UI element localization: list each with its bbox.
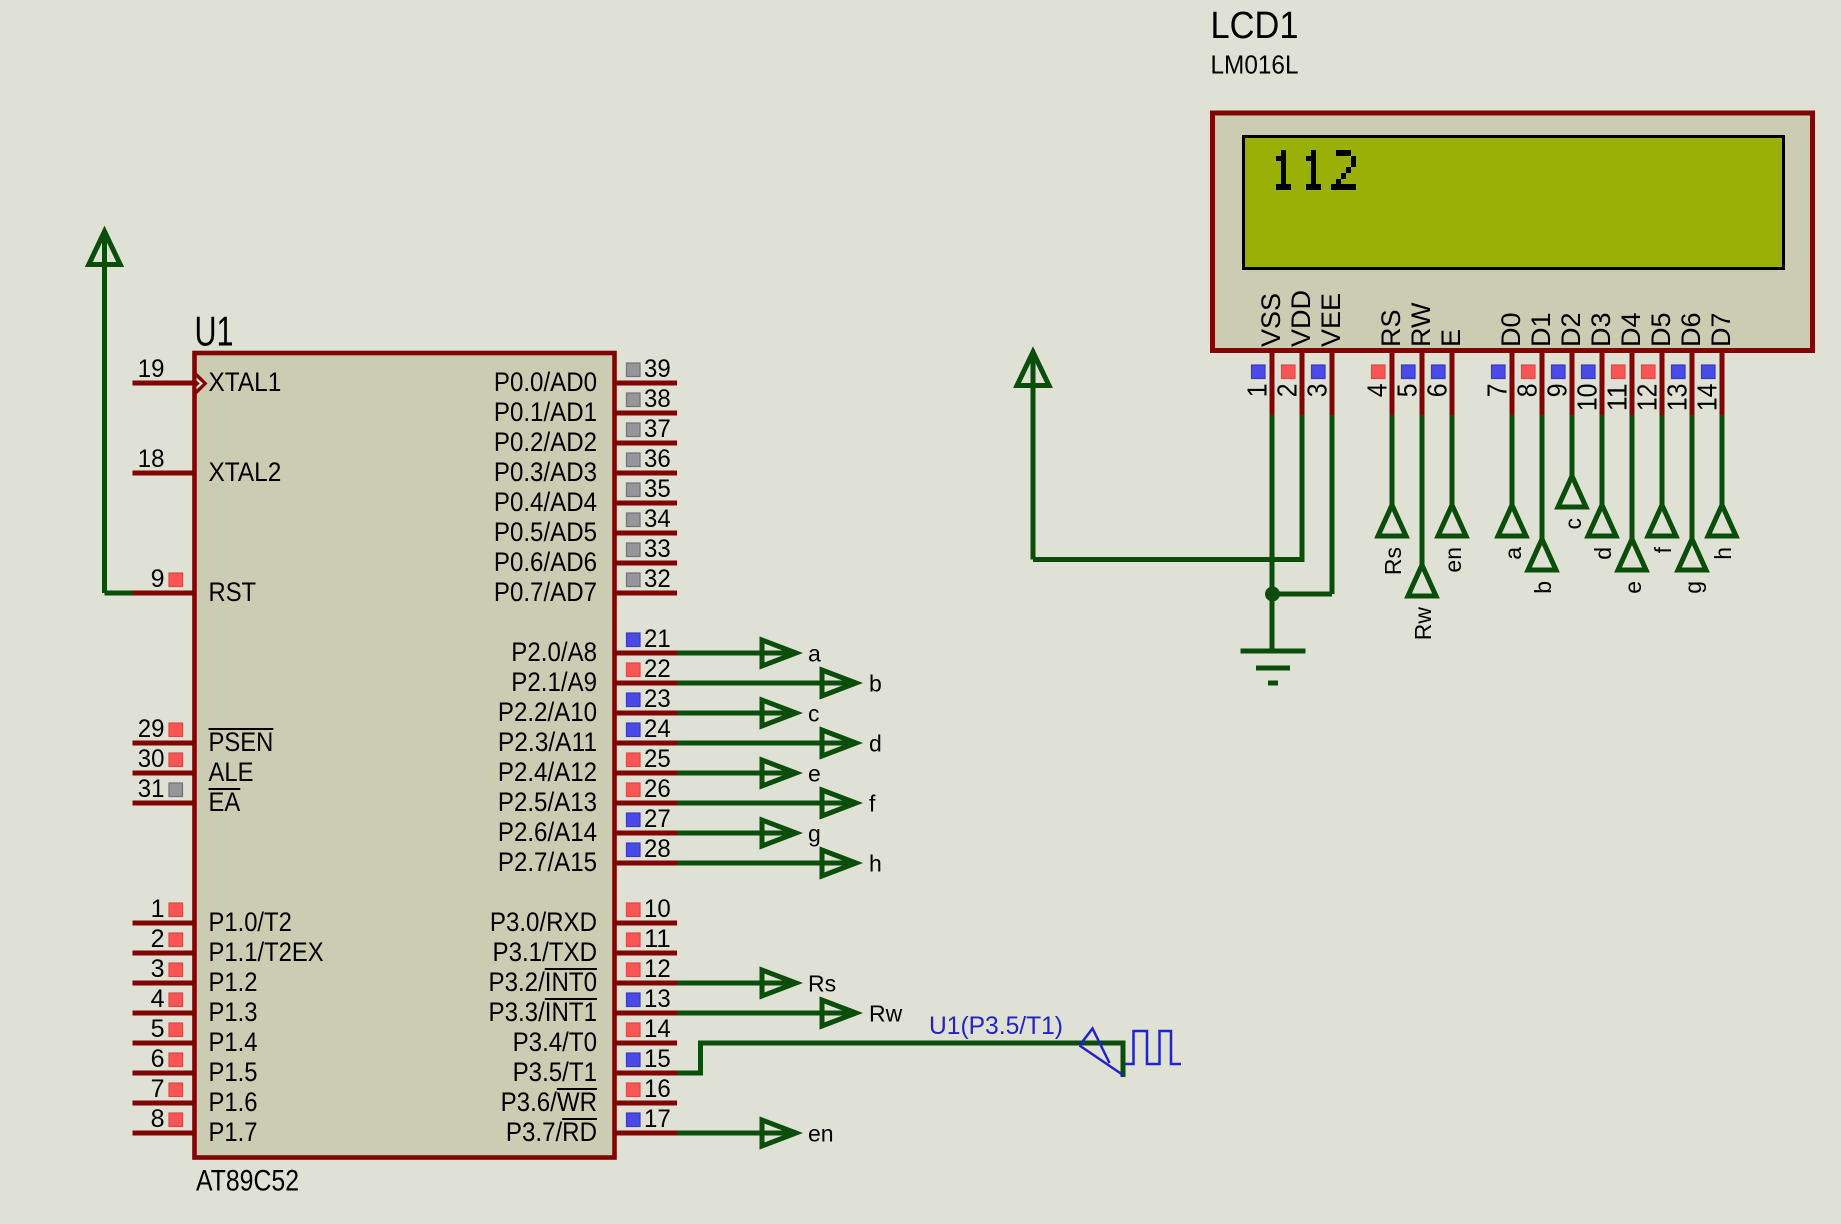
svg-text:h: h: [869, 851, 882, 877]
svg-text:LCD1: LCD1: [1211, 5, 1299, 47]
svg-text:RW: RW: [1406, 302, 1436, 347]
svg-text:P2.3/A11: P2.3/A11: [498, 727, 597, 757]
svg-text:33: 33: [644, 535, 671, 563]
svg-text:RS: RS: [1376, 309, 1406, 347]
svg-text:en: en: [1440, 547, 1466, 573]
svg-text:30: 30: [138, 745, 165, 773]
svg-text:6: 6: [151, 1045, 165, 1073]
svg-text:11: 11: [1602, 384, 1633, 412]
svg-text:D6: D6: [1676, 312, 1706, 347]
svg-text:P2.6/A14: P2.6/A14: [498, 817, 597, 847]
svg-text:2: 2: [151, 925, 165, 953]
svg-text:34: 34: [644, 505, 671, 533]
svg-text:a: a: [1500, 547, 1526, 560]
svg-text:12: 12: [1632, 384, 1663, 412]
svg-text:8: 8: [151, 1105, 165, 1133]
svg-text:P0.5/AD5: P0.5/AD5: [494, 517, 597, 547]
svg-text:13: 13: [1662, 384, 1693, 412]
svg-text:36: 36: [644, 445, 671, 473]
svg-text:25: 25: [644, 745, 671, 773]
svg-text:VEE: VEE: [1316, 293, 1346, 347]
svg-text:P2.2/A10: P2.2/A10: [498, 697, 597, 727]
svg-text:17: 17: [644, 1105, 671, 1133]
svg-text:VDD: VDD: [1286, 290, 1316, 347]
svg-text:e: e: [1620, 581, 1646, 594]
svg-text:P3.4/T0: P3.4/T0: [513, 1027, 597, 1057]
svg-text:7: 7: [151, 1075, 165, 1103]
svg-text:21: 21: [644, 625, 671, 653]
svg-text:27: 27: [644, 805, 671, 833]
svg-text:37: 37: [644, 415, 671, 443]
svg-text:P1.2: P1.2: [209, 967, 258, 997]
svg-text:PSEN: PSEN: [209, 727, 274, 757]
svg-text:b: b: [1530, 581, 1556, 594]
svg-text:13: 13: [644, 985, 671, 1013]
svg-text:14: 14: [1692, 384, 1723, 412]
svg-text:1: 1: [151, 895, 165, 923]
svg-text:24: 24: [644, 715, 671, 743]
svg-text:31: 31: [138, 775, 165, 803]
svg-text:P0.3/AD3: P0.3/AD3: [494, 457, 597, 487]
svg-text:Rw: Rw: [869, 1001, 903, 1027]
svg-text:U1: U1: [195, 308, 234, 355]
svg-text:P1.3: P1.3: [209, 997, 258, 1027]
svg-text:22: 22: [644, 655, 671, 683]
svg-text:b: b: [869, 671, 882, 697]
svg-text:14: 14: [644, 1015, 671, 1043]
svg-text:9: 9: [151, 565, 165, 593]
svg-text:P3.2/INT0: P3.2/INT0: [489, 967, 598, 997]
svg-text:1: 1: [1242, 384, 1273, 398]
svg-text:P1.7: P1.7: [209, 1117, 258, 1147]
svg-text:39: 39: [644, 355, 671, 383]
svg-text:c: c: [1560, 518, 1586, 530]
svg-text:35: 35: [644, 475, 671, 503]
svg-text:a: a: [808, 641, 821, 667]
svg-text:VSS: VSS: [1256, 293, 1286, 347]
svg-text:g: g: [1680, 581, 1706, 594]
svg-text:d: d: [1590, 547, 1616, 560]
svg-text:23: 23: [644, 685, 671, 713]
svg-text:10: 10: [1572, 384, 1603, 412]
svg-text:8: 8: [1512, 384, 1543, 398]
svg-text:d: d: [869, 731, 882, 757]
svg-text:15: 15: [644, 1045, 671, 1073]
svg-text:P3.6/WR: P3.6/WR: [501, 1087, 597, 1117]
svg-text:EA: EA: [209, 787, 241, 817]
svg-text:10: 10: [644, 895, 671, 923]
svg-text:P2.0/A8: P2.0/A8: [511, 637, 597, 667]
svg-text:4: 4: [151, 985, 165, 1013]
svg-text:P1.6: P1.6: [209, 1087, 258, 1117]
svg-text:32: 32: [644, 565, 671, 593]
svg-text:38: 38: [644, 385, 671, 413]
svg-text:P0.1/AD1: P0.1/AD1: [494, 397, 597, 427]
svg-text:P0.0/AD0: P0.0/AD0: [494, 367, 597, 397]
svg-text:Rs: Rs: [1380, 547, 1406, 575]
svg-text:4: 4: [1362, 384, 1393, 398]
svg-text:P3.5/T1: P3.5/T1: [513, 1057, 597, 1087]
svg-text:29: 29: [138, 715, 165, 743]
svg-text:P2.4/A12: P2.4/A12: [498, 757, 597, 787]
svg-text:AT89C52: AT89C52: [196, 1165, 299, 1198]
svg-text:D2: D2: [1556, 312, 1586, 347]
svg-text:P2.7/A15: P2.7/A15: [498, 847, 597, 877]
svg-text:3: 3: [1302, 384, 1333, 398]
svg-text:RST: RST: [209, 577, 257, 607]
svg-text:5: 5: [1392, 384, 1423, 398]
svg-text:9: 9: [1542, 384, 1573, 398]
svg-text:P1.4: P1.4: [209, 1027, 258, 1057]
svg-text:11: 11: [644, 925, 671, 953]
svg-text:5: 5: [151, 1015, 165, 1043]
svg-text:P3.7/RD: P3.7/RD: [506, 1117, 597, 1147]
svg-text:P1.5: P1.5: [209, 1057, 258, 1087]
svg-text:XTAL1: XTAL1: [209, 367, 282, 397]
svg-text:P2.5/A13: P2.5/A13: [498, 787, 597, 817]
svg-text:en: en: [808, 1121, 834, 1147]
svg-text:Rs: Rs: [808, 971, 836, 997]
svg-text:P3.1/TXD: P3.1/TXD: [493, 937, 598, 967]
svg-text:2: 2: [1272, 384, 1303, 398]
svg-text:D7: D7: [1706, 312, 1736, 347]
svg-text:f: f: [1650, 546, 1676, 553]
svg-text:P0.7/AD7: P0.7/AD7: [494, 577, 597, 607]
svg-text:U1(P3.5/T1): U1(P3.5/T1): [929, 1012, 1063, 1040]
svg-text:P0.4/AD4: P0.4/AD4: [494, 487, 597, 517]
svg-text:D3: D3: [1586, 312, 1616, 347]
svg-text:19: 19: [138, 355, 165, 383]
svg-text:e: e: [808, 761, 821, 787]
svg-text:LM016L: LM016L: [1211, 50, 1299, 80]
svg-text:P1.0/T2: P1.0/T2: [209, 907, 292, 937]
svg-text:18: 18: [138, 445, 165, 473]
svg-text:D4: D4: [1616, 312, 1646, 347]
svg-text:g: g: [808, 821, 821, 847]
svg-text:28: 28: [644, 835, 671, 863]
svg-text:D0: D0: [1496, 312, 1526, 347]
svg-text:P1.1/T2EX: P1.1/T2EX: [209, 937, 324, 967]
svg-text:D1: D1: [1526, 312, 1556, 347]
svg-text:26: 26: [644, 775, 671, 803]
svg-text:f: f: [869, 791, 876, 817]
svg-text:ALE: ALE: [209, 757, 254, 787]
svg-text:Rw: Rw: [1410, 607, 1436, 641]
svg-text:P2.1/A9: P2.1/A9: [511, 667, 597, 697]
svg-text:P0.6/AD6: P0.6/AD6: [494, 547, 597, 577]
svg-text:3: 3: [151, 955, 165, 983]
svg-text:P0.2/AD2: P0.2/AD2: [494, 427, 597, 457]
svg-text:12: 12: [644, 955, 671, 983]
svg-text:E: E: [1436, 329, 1466, 347]
svg-text:D5: D5: [1646, 312, 1676, 347]
svg-text:6: 6: [1422, 384, 1453, 398]
svg-text:7: 7: [1482, 384, 1513, 398]
svg-text:P3.3/INT1: P3.3/INT1: [489, 997, 598, 1027]
svg-text:XTAL2: XTAL2: [209, 457, 282, 487]
svg-text:h: h: [1710, 547, 1736, 560]
svg-text:P3.0/RXD: P3.0/RXD: [490, 907, 597, 937]
svg-text:c: c: [808, 701, 820, 727]
svg-text:16: 16: [644, 1075, 671, 1103]
